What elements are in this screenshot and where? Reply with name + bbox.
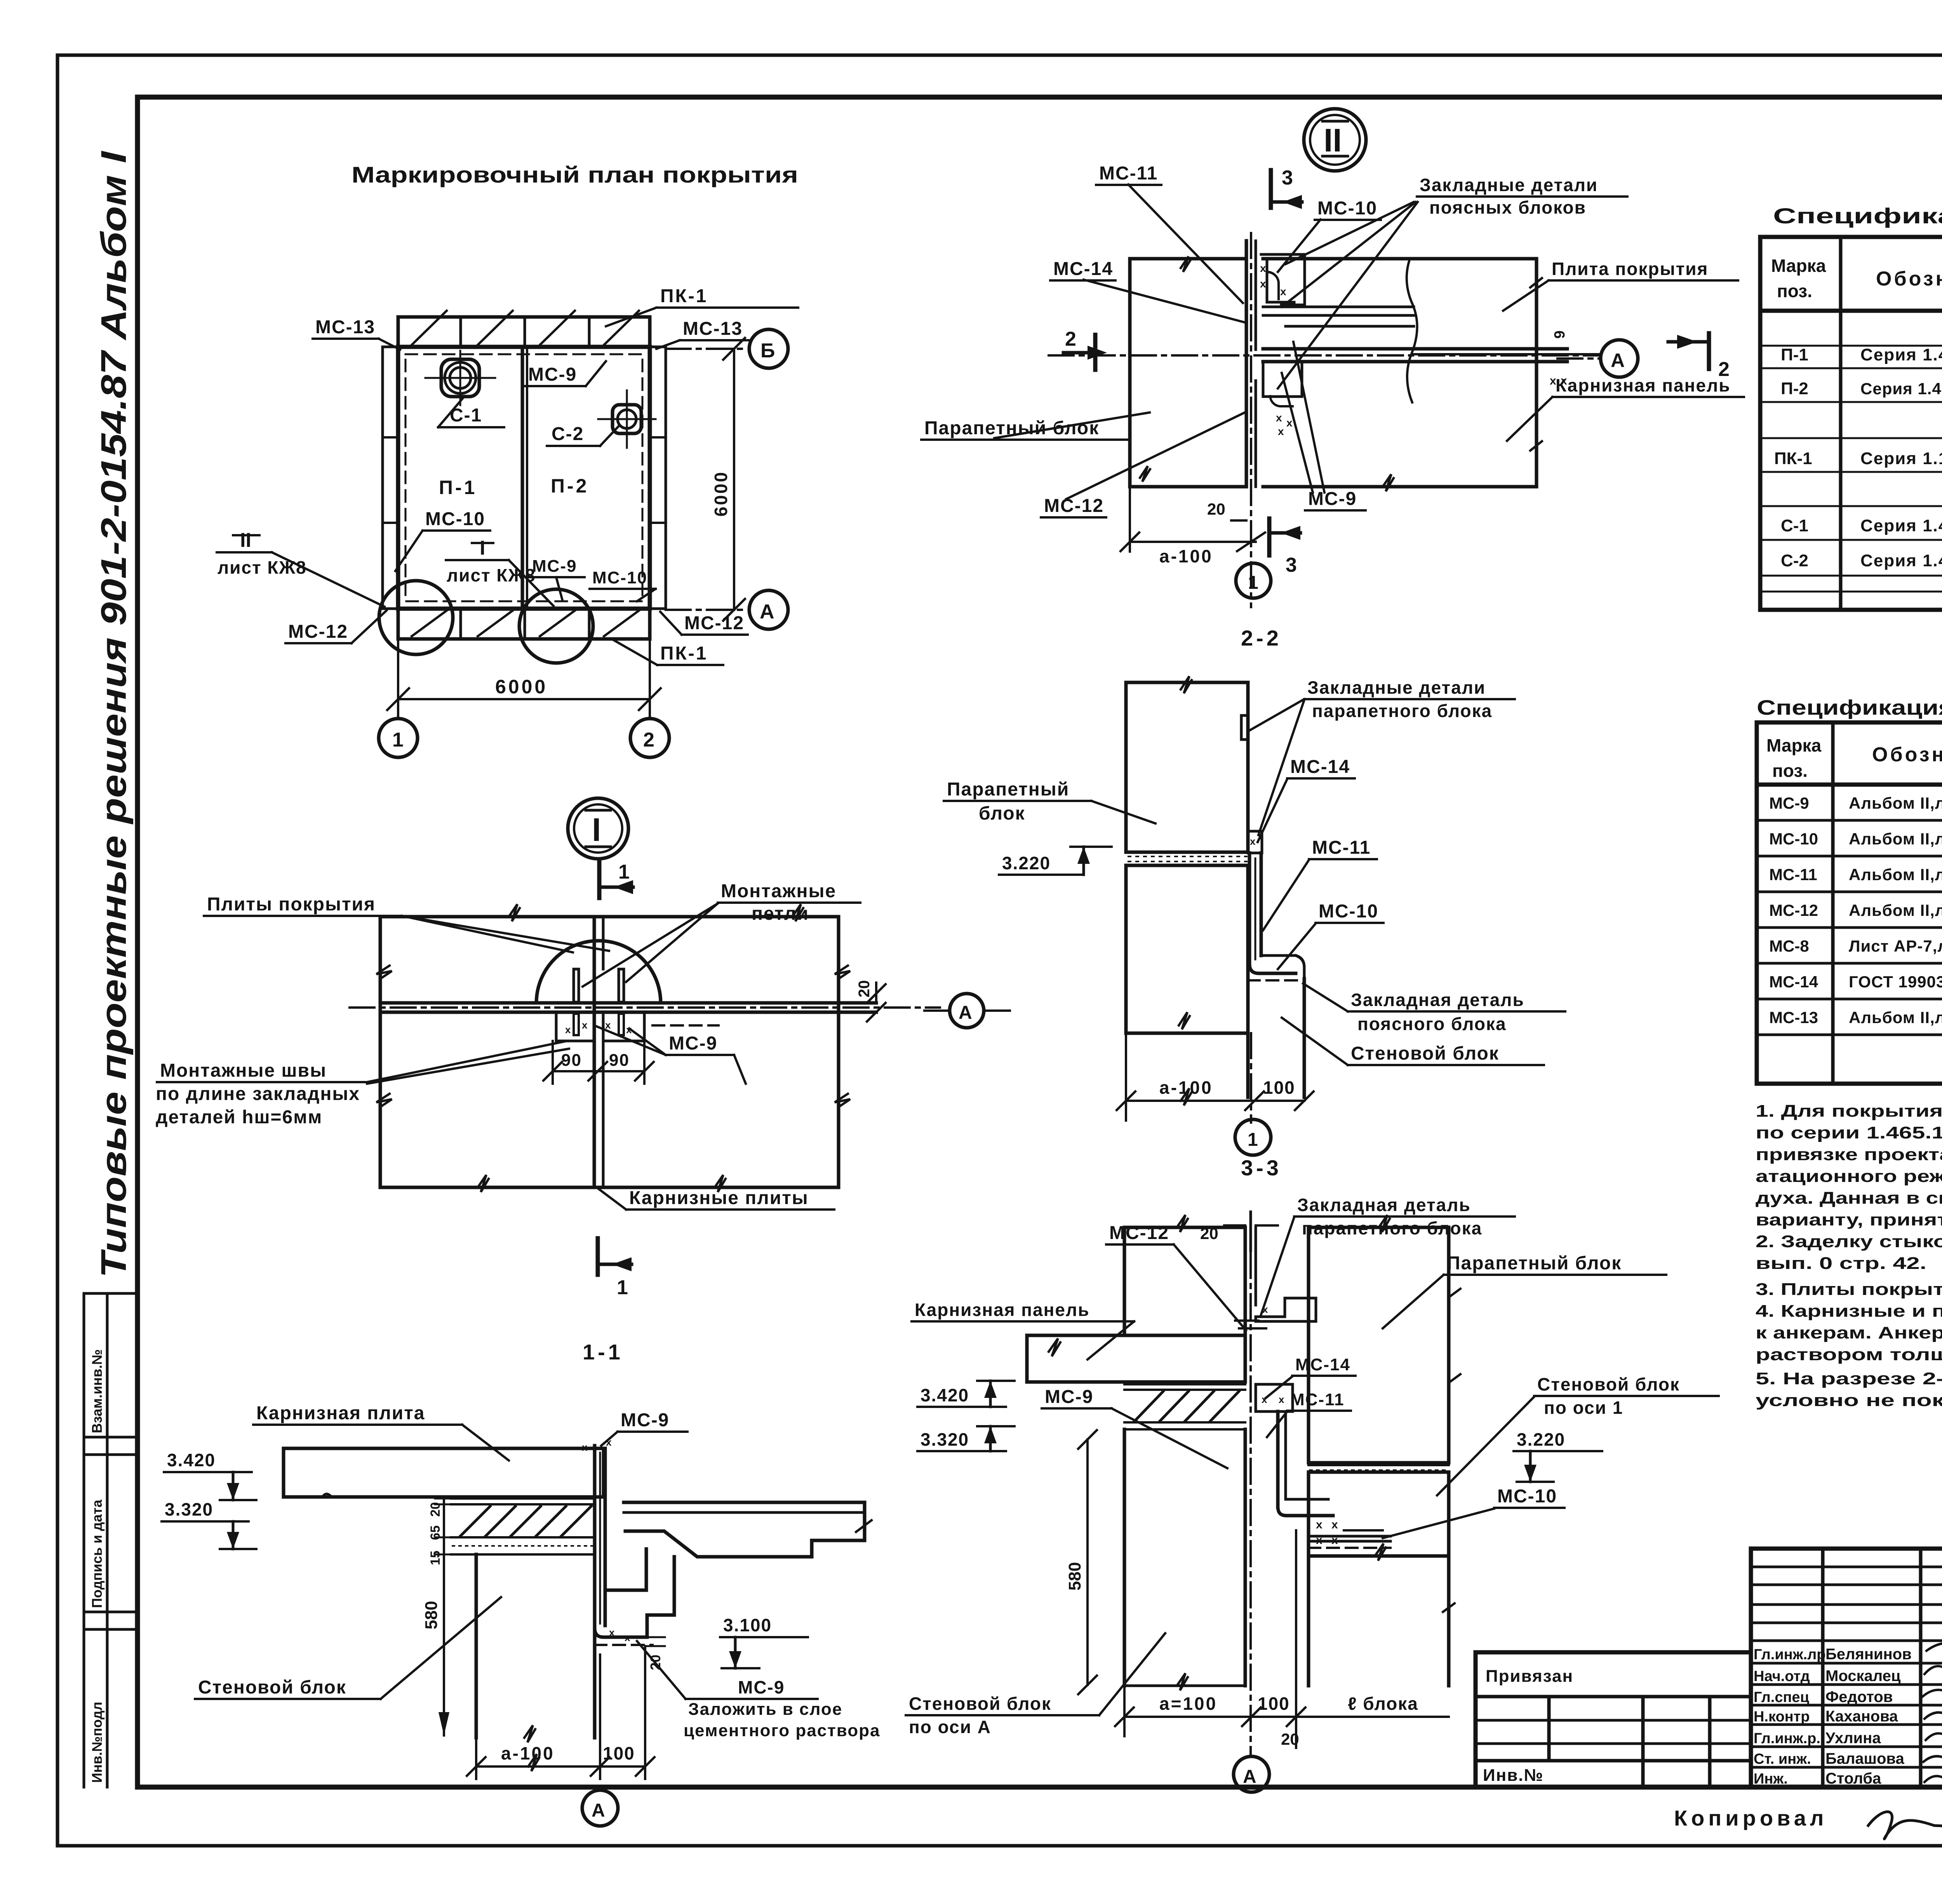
svg-text:П-2: П-2: [1781, 379, 1808, 398]
svg-text:ℓ блока: ℓ блока: [1348, 1693, 1418, 1714]
svg-text:С-2: С-2: [552, 424, 584, 444]
svg-text:Серия 1.138-3 вып.1: Серия 1.138-3 вып.1: [1860, 449, 1942, 468]
svg-text:Серия 1.494-24 в.1: Серия 1.494-24 в.1: [1860, 516, 1942, 535]
svg-text:Ухлина: Ухлина: [1825, 1730, 1881, 1747]
svg-text:по оси А: по оси А: [909, 1717, 991, 1737]
svg-text:x: x: [1331, 1518, 1338, 1531]
svg-text:x: x: [565, 1024, 571, 1036]
МС-9 label 1-1: [601, 1410, 687, 1446]
svg-text:Альбом II,лист -КЖИ-2.7: Альбом II,лист -КЖИ-2.7: [1849, 901, 1942, 919]
svg-text:МС-10: МС-10: [425, 509, 485, 529]
svg-text:15: 15: [428, 1551, 443, 1565]
svg-text:МС-12: МС-12: [288, 621, 348, 642]
svg-text:МС-9: МС-9: [1045, 1387, 1093, 1407]
title block: signature table: [1751, 1549, 1942, 1787]
svg-text:3.420: 3.420: [921, 1385, 969, 1405]
svg-text:Альбом II,лист -КЖИ-2.7: Альбом II,лист -КЖИ-2.7: [1849, 865, 1942, 884]
cornice panel slab 3-3: [1027, 1335, 1245, 1382]
svg-text:Обозначение: Обозначение: [1872, 743, 1942, 766]
label stenovoy blok po osi 1: [1437, 1374, 1719, 1495]
svg-text:условно не показаны.: условно не показаны.: [1756, 1391, 1942, 1410]
svg-text:А: А: [959, 1002, 972, 1023]
joint gap with embed at top: [1235, 1212, 1316, 1756]
axis circle 1: [379, 719, 418, 757]
svg-text:по длине закладных: по длине закладных: [156, 1084, 360, 1104]
svg-text:Балашова: Балашова: [1825, 1750, 1904, 1767]
svg-text:4. Карнизные и парапетные: 4. Карнизные и парапетные плиты крепятся…: [1756, 1302, 1942, 1321]
svg-text:9: 9: [1552, 331, 1568, 339]
embed plate on upper right edge: [1241, 715, 1248, 740]
glass C-2 symbol: [598, 390, 656, 448]
svg-text:x: x: [1279, 1394, 1284, 1405]
plan labels: [606, 286, 798, 326]
svg-text:2. Заделку стыков между пл: 2. Заделку стыков между плитами выполнят…: [1756, 1232, 1942, 1251]
parapet block (plan cut): [1130, 256, 1246, 487]
rotated sheet title in left margin: [94, 150, 134, 1278]
svg-text:поясных блоков: поясных блоков: [1429, 197, 1586, 218]
sec 3-3 upper-left block: [1124, 1215, 1245, 1335]
svg-text:П-2: П-2: [551, 475, 589, 497]
cornice panel thin band to axis D: [1049, 331, 1599, 387]
svg-text:3.320: 3.320: [921, 1429, 969, 1450]
svg-text:а-100: а-100: [1159, 1077, 1213, 1098]
svg-text:к анкерам. Анкеря защищают: к анкерам. Анкеря защищаются от коррозии…: [1756, 1323, 1942, 1342]
axis row dashes: [666, 348, 748, 350]
svg-text:x: x: [606, 1436, 612, 1448]
label karniznaya plita: [253, 1403, 509, 1460]
svg-text:x: x: [1280, 285, 1286, 298]
left wall 3-3: [1124, 1429, 1245, 1690]
svg-text:100: 100: [603, 1743, 635, 1763]
detail I plate square: [376, 904, 850, 1192]
title block: pривязан grid left: [1476, 1652, 1751, 1787]
axis circle 1 below 2-2: [1235, 1119, 1271, 1155]
svg-text:Марка: Марка: [1771, 256, 1826, 276]
dim 580 vertical 3-3: [1065, 1430, 1097, 1694]
svg-text:Типовые проектные решения 901: Типовые проектные решения 901-2-0154.87 …: [94, 150, 134, 1278]
labels section 2-2: [1250, 677, 1515, 835]
svg-text:лист КЖ8: лист КЖ8: [218, 557, 307, 578]
svg-text:Нач.отд: Нач.отд: [1754, 1668, 1810, 1685]
section mark 2 left: [1063, 328, 1107, 370]
svg-text:МС-13: МС-13: [683, 318, 743, 339]
МС-9 label 3-3: [1042, 1387, 1227, 1468]
svg-text:Плита покрытия: Плита покрытия: [1552, 259, 1708, 279]
detail circle II marker on plan: [519, 589, 593, 663]
dim 90 90: [543, 1041, 654, 1084]
svg-text:Спецификация элементов пок: Спецификация элементов покрытия: [1773, 204, 1942, 228]
svg-text:Подпись и дата: Подпись и дата: [89, 1499, 105, 1608]
svg-text:Парапетный блок: Парапетный блок: [1447, 1253, 1622, 1274]
vertical joint detail I: [594, 917, 603, 1187]
cornice plate row bottom (PK-1): [398, 609, 650, 639]
svg-text:а=100: а=100: [1159, 1693, 1217, 1714]
svg-text:x: x: [1260, 262, 1266, 274]
svg-text:А: А: [760, 600, 774, 623]
svg-text:Серия 1.465.1-10/80: Серия 1.465.1-10/80: [1860, 345, 1942, 364]
svg-text:Копировал: Копировал: [1674, 1806, 1827, 1830]
leader МС-9 detail I: [594, 1025, 746, 1084]
svg-text:А: А: [1611, 350, 1625, 371]
svg-text:МС-11: МС-11: [1290, 1390, 1345, 1409]
wall block 1-1: [476, 1554, 595, 1742]
svg-text:1. Для покрытия применены: 1. Для покрытия применены комплексные же…: [1756, 1102, 1942, 1121]
svg-text:А: А: [1243, 1767, 1256, 1787]
label МС-9 zalozhit 1-1: [637, 1641, 880, 1740]
svg-text:Ст. инж.: Ст. инж.: [1754, 1751, 1811, 1767]
weld pockets below joint: [556, 1012, 719, 1041]
svg-text:Белянинов: Белянинов: [1825, 1646, 1912, 1663]
elevation 3.320: [162, 1499, 256, 1549]
svg-text:3-3: 3-3: [1241, 1156, 1282, 1180]
signatures squiggles: [1923, 1643, 1942, 1782]
axis circle B: [749, 329, 788, 368]
svg-text:x: x: [1262, 1394, 1267, 1405]
svg-text:МС-11: МС-11: [1312, 837, 1371, 858]
svg-text:духа. Данная в спецификации: духа. Данная в спецификации марка плиты …: [1756, 1189, 1942, 1208]
svg-text:С-1: С-1: [1781, 516, 1808, 535]
svg-text:ГОСТ 19903-74*: ГОСТ 19903-74*: [1849, 973, 1942, 991]
glass C-1 symbol: [425, 351, 495, 405]
svg-text:Стеновой блок: Стеновой блок: [909, 1693, 1051, 1714]
rotated dim 20 right: [856, 980, 886, 1022]
svg-text:цементного раствора: цементного раствора: [684, 1721, 880, 1740]
svg-text:по серии 1.465.1-10/82, марк: по серии 1.465.1-10/82, марка комплексно…: [1756, 1123, 1942, 1142]
footer texts below frame: [1674, 1805, 1942, 1889]
svg-text:Карнизная панель: Карнизная панель: [915, 1300, 1089, 1320]
svg-text:поз.: поз.: [1772, 761, 1808, 781]
axis circle A right of detail II: [1557, 340, 1638, 377]
svg-text:Закладная деталь: Закладная деталь: [1351, 990, 1524, 1010]
insulation hatch band 3-3: [1124, 1384, 1245, 1429]
left small dims 20 65 15: [422, 1498, 452, 1735]
svg-text:Закладные детали: Закладные детали: [1420, 175, 1598, 195]
svg-text:МС-12: МС-12: [1769, 901, 1818, 919]
svg-text:Инж.: Инж.: [1754, 1771, 1788, 1787]
svg-text:Марка: Марка: [1766, 735, 1822, 755]
label montazhnye petli: [583, 881, 860, 987]
svg-text:Заложить в слое: Заложить в слое: [688, 1700, 842, 1719]
axis circle 1 below detail II: [1236, 563, 1271, 598]
elevation 3.100: [720, 1615, 808, 1668]
right dim 6000: [711, 338, 745, 621]
svg-text:90: 90: [561, 1051, 582, 1070]
svg-text:МС-9: МС-9: [1769, 794, 1809, 812]
svg-text:МС-11: МС-11: [1099, 163, 1158, 184]
label plity pokrytiya: [204, 894, 609, 952]
svg-text:МС-14: МС-14: [1290, 757, 1350, 777]
roof plate right 1-1: [607, 1502, 872, 1637]
svg-text:петли: петли: [752, 903, 809, 924]
svg-text:I: I: [480, 537, 485, 559]
leader lines detail II: [994, 184, 1552, 499]
svg-text:МС-10: МС-10: [1319, 901, 1378, 922]
svg-text:а-100: а-100: [1159, 546, 1213, 566]
svg-text:Столба: Столба: [1825, 1770, 1881, 1787]
svg-text:1: 1: [1248, 1130, 1258, 1150]
svg-text:Серия 1.465.1-10/80,КЖИЦ: Серия 1.465.1-10/80,КЖИЦ: [1860, 379, 1942, 398]
svg-text:2: 2: [643, 729, 654, 751]
horizontal plate edges band: [350, 1003, 940, 1012]
svg-text:МС-9: МС-9: [1308, 489, 1357, 509]
svg-text:Стеновой блок: Стеновой блок: [1537, 1374, 1680, 1394]
axis circle A: [749, 590, 788, 629]
svg-text:1: 1: [618, 861, 630, 883]
section 2-2: parapet block upper: [1126, 676, 1248, 852]
table 2 grid: [1757, 722, 1942, 1084]
svg-text:привязке проекта, и зависит: привязке проекта, и зависит от выбора ма…: [1756, 1145, 1942, 1164]
section 2-2: parapet block lower: [1126, 865, 1248, 1033]
svg-text:100: 100: [1263, 1077, 1295, 1098]
svg-text:Инв.№: Инв.№: [1483, 1766, 1544, 1785]
svg-text:Спецификация металлических и: Спецификация металлических изделий данны…: [1757, 696, 1942, 719]
svg-text:Гл.инж.лр: Гл.инж.лр: [1754, 1646, 1826, 1663]
svg-text:П-1: П-1: [439, 477, 477, 498]
svg-text:Закладная деталь: Закладная деталь: [1297, 1195, 1471, 1215]
svg-text:МС-10: МС-10: [1769, 830, 1818, 848]
joint lines at axis 1: [1246, 233, 1256, 607]
svg-text:МС-9: МС-9: [621, 1410, 669, 1431]
axis circle A left of 2-2: [924, 994, 1010, 1028]
dim 20 and a-100 bottom of detail II: [1121, 487, 1265, 566]
bottom dim 1-1: [467, 1646, 654, 1779]
svg-text:3: 3: [1286, 554, 1297, 576]
svg-text:1: 1: [1248, 573, 1258, 593]
wall block below (stenovoy): [1248, 976, 1304, 1123]
svg-text:100: 100: [1258, 1693, 1290, 1714]
table 1 header text: [1771, 252, 1942, 301]
rotated stamp labels: [89, 1349, 105, 1783]
svg-text:3. Плиты покрытия и карниз: 3. Плиты покрытия и карнизные плиты укла…: [1756, 1280, 1942, 1299]
svg-text:Парапетный блок: Парапетный блок: [924, 418, 1099, 439]
svg-text:Карнизные плиты: Карнизные плиты: [629, 1188, 809, 1208]
svg-text:3.100: 3.100: [723, 1615, 772, 1635]
svg-text:Стеновой блок: Стеновой блок: [198, 1677, 346, 1698]
roof plan square: [398, 347, 650, 609]
bottom dim section 2-2: [1117, 1033, 1314, 1121]
МС-14 МС-11 labels 3-3: [1265, 1355, 1356, 1437]
svg-text:МС-10: МС-10: [1497, 1486, 1557, 1507]
svg-text:Гл.инж.р.: Гл.инж.р.: [1754, 1730, 1820, 1747]
svg-text:II: II: [240, 529, 251, 552]
mounting loops dome: [536, 941, 661, 1003]
mortar joint band: [1126, 852, 1248, 865]
svg-text:x: x: [582, 1441, 588, 1453]
elevation 3.220 left: [999, 847, 1112, 875]
svg-text:Монтажные швы: Монтажные швы: [160, 1060, 327, 1081]
section mark 1 bottom: [598, 1238, 632, 1299]
copier signature: [1868, 1812, 1942, 1839]
svg-text:1: 1: [392, 729, 404, 751]
embedded part top at joint: [1260, 254, 1305, 310]
label karniznye plity: [598, 1188, 834, 1210]
label МС-10 right: [1383, 1486, 1564, 1538]
label stenovoy blok po osi A: [906, 1633, 1165, 1737]
svg-text:атационного режима здания и: атационного режима здания и расчетных па…: [1756, 1167, 1942, 1186]
svg-text:МС-11: МС-11: [1769, 865, 1817, 884]
svg-text:I: I: [592, 811, 601, 848]
insulation hatch band 1-1: [451, 1498, 595, 1554]
bottom dim 6000: [387, 639, 661, 719]
left margin stamp column: [84, 1293, 137, 1787]
svg-text:6000: 6000: [711, 471, 731, 517]
detail circle I marker on plan: [379, 581, 453, 654]
cornice slab 1-1: [284, 1448, 604, 1497]
svg-text:Обозначение: Обозначение: [1876, 268, 1942, 290]
elevations 3.420 3.320 left of 3-3: [917, 1381, 1015, 1407]
cornice plate row top (PK-1): [398, 317, 650, 347]
svg-text:МС-8: МС-8: [1769, 937, 1809, 955]
svg-text:1-1: 1-1: [583, 1340, 623, 1364]
axis circle 2: [630, 719, 669, 757]
svg-text:по оси 1: по оси 1: [1544, 1398, 1623, 1418]
svg-text:А: А: [592, 1800, 605, 1821]
svg-text:Серия 1.494-24 в.1: Серия 1.494-24 в.1: [1860, 551, 1942, 570]
svg-text:20: 20: [1207, 500, 1225, 518]
svg-text:Федотов: Федотов: [1825, 1688, 1893, 1706]
parapet block right 3-3: [1309, 1215, 1460, 1463]
svg-text:Привязан: Привязан: [1486, 1667, 1573, 1686]
pocket below plate with welds: [1263, 362, 1302, 437]
svg-text:2: 2: [1065, 328, 1076, 350]
svg-text:Гл.спец: Гл.спец: [1754, 1689, 1810, 1706]
detail I bubble: [568, 798, 628, 859]
svg-text:ПК-1: ПК-1: [1774, 449, 1812, 468]
svg-text:раствором толщиной 20 мм.: раствором толщиной 20 мм.: [1756, 1345, 1942, 1364]
table 2 rows: [1769, 787, 1942, 1032]
svg-text:1: 1: [617, 1276, 628, 1299]
svg-text:Закладные детали: Закладные детали: [1307, 677, 1486, 698]
svg-text:МС-9: МС-9: [528, 364, 577, 385]
axis circle A below 1-1: [582, 1790, 618, 1826]
svg-text:3.220: 3.220: [1517, 1429, 1565, 1450]
MC-14 connector at joint: [1248, 831, 1262, 853]
svg-text:П-1: П-1: [1781, 345, 1808, 364]
svg-text:варианту, принятому в типовом: варианту, принятому в типовом проекте (п…: [1756, 1210, 1942, 1229]
svg-text:580: 580: [422, 1601, 441, 1629]
svg-text:Альбом II,лист -КЖИ-2.5: Альбом II,лист -КЖИ-2.5: [1849, 794, 1942, 812]
label montazhnye shvy: [156, 1041, 569, 1128]
svg-text:ПК-1: ПК-1: [660, 286, 708, 306]
svg-text:Карнизная плита: Карнизная плита: [256, 1403, 425, 1424]
svg-text:x: x: [1262, 1304, 1268, 1315]
svg-text:С-2: С-2: [1781, 551, 1808, 570]
svg-text:Монтажные: Монтажные: [721, 881, 836, 902]
svg-text:блок: блок: [979, 803, 1025, 824]
svg-text:II: II: [1324, 122, 1342, 158]
svg-text:Стеновой блок: Стеновой блок: [1351, 1043, 1499, 1064]
svg-text:Лист АР-7,лист-КЖИ-2.4: Лист АР-7,лист-КЖИ-2.4: [1849, 937, 1942, 955]
svg-text:МС-12: МС-12: [1044, 496, 1104, 516]
svg-text:деталей hш=6мм: деталей hш=6мм: [156, 1107, 322, 1128]
section mark 3 bottom: [1269, 519, 1300, 576]
svg-text:парапетного блока: парапетного блока: [1312, 701, 1492, 721]
dim 20 near foot: [645, 1637, 665, 1670]
svg-text:x: x: [1276, 412, 1282, 424]
svg-text:Каханова: Каханова: [1825, 1708, 1898, 1725]
svg-text:580: 580: [1065, 1562, 1084, 1591]
svg-text:x: x: [1250, 835, 1256, 847]
svg-text:20: 20: [1281, 1730, 1299, 1748]
cornice plate strip left: [383, 347, 398, 609]
elevation 3.220 right: [1514, 1429, 1602, 1482]
svg-text:ПК-1: ПК-1: [660, 643, 708, 664]
section mark 1 top: [599, 861, 633, 898]
svg-text:МС-14: МС-14: [1053, 259, 1113, 279]
svg-text:90: 90: [609, 1051, 630, 1070]
connector middle 3-3: [1256, 1384, 1333, 1516]
svg-text:2-2: 2-2: [1241, 626, 1282, 650]
table 2 header text: [1766, 735, 1942, 781]
svg-text:поз.: поз.: [1777, 281, 1812, 301]
svg-text:Маркировочный план покрытия: Маркировочный план покрытия: [352, 162, 798, 188]
svg-text:Плиты покрытия: Плиты покрытия: [207, 894, 376, 915]
svg-text:5. На разрезе 2-2 плита: 5. На разрезе 2-2 плита покрытия и поясн…: [1756, 1369, 1942, 1388]
bottom dim 3-3: [1115, 1530, 1449, 1748]
svg-text:МС-14: МС-14: [1295, 1355, 1350, 1374]
svg-text:Москалец: Москалец: [1825, 1667, 1901, 1685]
svg-text:3.420: 3.420: [167, 1450, 216, 1470]
detail II labels: [1096, 163, 1161, 185]
svg-text:Взам.инв.№: Взам.инв.№: [89, 1349, 105, 1433]
svg-text:3: 3: [1282, 167, 1293, 189]
svg-text:МС-9: МС-9: [532, 557, 577, 576]
svg-text:Н.контр: Н.контр: [1754, 1709, 1810, 1725]
svg-text:Инв.№подл: Инв.№подл: [89, 1702, 105, 1783]
table 1 grid: [1760, 237, 1942, 610]
svg-text:Карнизная панель: Карнизная панель: [1556, 375, 1730, 395]
svg-text:МС-13: МС-13: [315, 317, 375, 338]
notes text: [1756, 1102, 1942, 1410]
svg-text:6000: 6000: [495, 676, 548, 698]
roof plate (plita pokrytiya): [1263, 259, 1542, 491]
cornice plate strip right: [650, 347, 666, 609]
svg-text:МС-9: МС-9: [738, 1677, 785, 1697]
axis circle A below 3-3: [1234, 1756, 1269, 1792]
detail II bubble: [1304, 109, 1366, 171]
table 1 rows: [1774, 318, 1942, 570]
svg-text:МС-10: МС-10: [1317, 198, 1377, 219]
svg-text:3.320: 3.320: [165, 1499, 213, 1519]
elevation 3.420: [164, 1450, 256, 1500]
svg-text:x: x: [1316, 1518, 1323, 1531]
svg-text:МС-14: МС-14: [1769, 973, 1818, 991]
svg-text:x: x: [1278, 425, 1284, 437]
stenovoy blok po osi 1 (right): [1309, 1465, 1455, 1686]
label karniznaya panel 3-3: [912, 1300, 1134, 1359]
svg-text:Альбом II,лист-КЖИ-2.7: Альбом II,лист-КЖИ-2.7: [1849, 1008, 1942, 1027]
svg-text:вып. 0 стр. 42.: вып. 0 стр. 42.: [1756, 1254, 1926, 1273]
svg-text:Парапетный: Парапетный: [947, 779, 1069, 800]
svg-text:x: x: [582, 1019, 588, 1031]
section mark 2 right: [1668, 333, 1730, 381]
MC-11 vertical strip: [1248, 853, 1304, 980]
svg-text:3.220: 3.220: [1002, 853, 1051, 873]
svg-text:МС-10: МС-10: [592, 568, 647, 587]
svg-text:x: x: [1260, 278, 1266, 290]
svg-text:МС-13: МС-13: [1769, 1008, 1818, 1027]
label stenovoy blok 1-1: [195, 1597, 501, 1699]
svg-text:МС-9: МС-9: [669, 1033, 717, 1054]
section mark 3 top: [1271, 167, 1302, 209]
svg-text:а-100: а-100: [501, 1743, 555, 1763]
signature table texts: [1754, 1646, 1912, 1787]
center joint between plates P-1 P-2: [521, 347, 524, 609]
svg-text:x: x: [1286, 417, 1293, 429]
sec 3-3 labels top: [1106, 1223, 1246, 1330]
svg-text:20: 20: [856, 980, 873, 998]
svg-text:поясного блока: поясного блока: [1357, 1014, 1507, 1034]
